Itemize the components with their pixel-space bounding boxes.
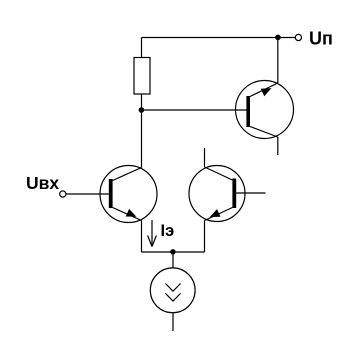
wire rail down to resistor top: [141, 38, 143, 58]
svg-text:Uп: Uп: [309, 28, 333, 48]
wire bottom rail to Q2 emitter: [142, 251, 205, 253]
wire Q1 base lead: [66, 193, 109, 195]
wire Q2 collector stub up: [204, 148, 206, 167]
svg-text:Uвх: Uвх: [26, 173, 59, 193]
resistor R1: [134, 58, 150, 95]
svg-text:Iэ: Iэ: [161, 222, 175, 240]
wire Q2 emitter lead down: [204, 221, 206, 253]
transistor Q3 (top right, emitter up): [236, 81, 294, 139]
wire Q1 emitter lead down: [141, 221, 143, 253]
wire Q3 emitter lead up to rail: [277, 38, 279, 84]
transistor Q1 (left, NPN): [100, 166, 157, 223]
wire top supply rail: [142, 37, 296, 39]
wire node A down to Q1 collector: [141, 110, 143, 168]
terminal Uп (open circle): [295, 34, 301, 40]
wire resistor bottom to node A: [141, 94, 143, 110]
wire node A to Q3 base: [142, 109, 247, 111]
annotation arrow Iэ (current direction): [148, 220, 157, 247]
node junction on rail (Q3 emitter tap): [275, 35, 281, 41]
current source I1: [150, 252, 195, 331]
node A (resistor / Q1 collector / Q3 base junction): [139, 107, 145, 113]
node bottom junction (current source tap): [170, 249, 175, 254]
transistor Q2 (middle, mirrored NPN): [189, 166, 245, 222]
terminal Uвх (open circle): [60, 191, 66, 197]
wire Q2 base lead (stub to right): [236, 192, 265, 194]
wire Q3 collector stub down: [277, 137, 279, 155]
